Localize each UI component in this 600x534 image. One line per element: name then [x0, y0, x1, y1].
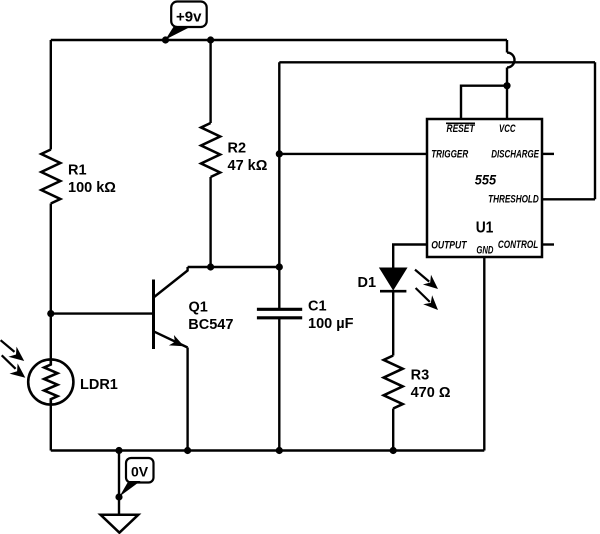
- LED D1 light arrow 2 shaft: [416, 288, 430, 302]
- svg-text:LDR1: LDR1: [80, 377, 118, 393]
- LED D1 light arrow 1 shaft: [415, 270, 429, 282]
- svg-text:VCC: VCC: [499, 123, 516, 135]
- svg-text:R1: R1: [68, 163, 87, 179]
- wire TRIGGER pin lead: [279, 153, 427, 155]
- node R2 bottom junction: [207, 263, 214, 270]
- svg-text:CONTROL: CONTROL: [498, 239, 539, 251]
- transistor Q1 emitter diagonal: [154, 331, 188, 347]
- LDR1 light arrow 2 shaft: [2, 355, 16, 369]
- LED D1 cathode bar: [380, 290, 406, 293]
- LDR1 zigzag: [44, 359, 57, 404]
- node TRIGGER junction: [276, 150, 283, 157]
- wire VCC drop upper: [506, 40, 508, 53]
- wire trigger net vertical: [278, 62, 280, 309]
- wire base lead: [51, 312, 154, 314]
- svg-text:R3: R3: [411, 368, 430, 384]
- supply flag +9v: [166, 2, 207, 40]
- transistor Q1 emitter arrowhead: [169, 335, 184, 346]
- node emitter junction: [184, 447, 191, 454]
- node C1 bottom junction: [276, 447, 283, 454]
- resistor R2: [201, 123, 220, 177]
- svg-text:RESET: RESET: [447, 123, 476, 135]
- svg-text:47 kΩ: 47 kΩ: [228, 158, 268, 174]
- LDR1 light arrow 1 head: [8, 347, 24, 361]
- svg-text:R2: R2: [228, 141, 247, 157]
- node R2 top junction: [207, 36, 214, 43]
- svg-text:U1: U1: [476, 220, 494, 237]
- node 0V label tap: [115, 493, 122, 500]
- wire threshold net right rail: [594, 62, 596, 199]
- node +9V tap junction: [162, 36, 169, 43]
- node collector/C1 junction: [276, 263, 283, 270]
- capacitor C1 top plate: [257, 308, 302, 311]
- svg-text:Q1: Q1: [189, 300, 208, 316]
- svg-text:DISCHARGE: DISCHARGE: [491, 149, 539, 161]
- wire 0V tap drop: [118, 451, 120, 515]
- wire bottom 0V rail: [51, 449, 485, 451]
- transistor Q1 base bar: [152, 280, 155, 350]
- svg-text:470 Ω: 470 Ω: [411, 385, 451, 401]
- wire VCC pin lead: [506, 86, 508, 119]
- wire LED to R3: [392, 291, 394, 355]
- node base junction: [47, 310, 54, 317]
- svg-text:555: 555: [475, 173, 497, 188]
- supply flag 0V: [120, 458, 154, 497]
- wire RESET branch: [461, 86, 507, 119]
- LDR1 light arrow 1 shaft: [1, 340, 15, 352]
- wire OUTPUT pin lead: [393, 245, 427, 269]
- svg-text:100 µF: 100 µF: [308, 316, 354, 332]
- op-amp U1 555 body box: [427, 119, 542, 257]
- resistor R1: [41, 150, 60, 204]
- wire threshold net horizontal: [279, 61, 595, 63]
- svg-text:TRIGGER: TRIGGER: [431, 149, 468, 161]
- LDR1 body circle: [28, 359, 73, 404]
- wire R3 bottom lead: [392, 409, 394, 451]
- wire emitter lead down: [186, 348, 188, 451]
- svg-text:GND: GND: [476, 245, 493, 257]
- wire hop over threshold net: [507, 53, 514, 68]
- wire left rail top (R1 top lead): [50, 40, 52, 150]
- wire GND pin lead: [483, 257, 485, 451]
- wire +9V top rail: [51, 39, 507, 41]
- svg-text:0V: 0V: [131, 464, 149, 480]
- node R3 bottom junction: [390, 447, 397, 454]
- LED D1 light arrow 2 head: [423, 295, 438, 310]
- resistor R3: [384, 356, 403, 409]
- pin label RESET: [446, 123, 475, 135]
- svg-text:D1: D1: [358, 275, 377, 291]
- wire R2 top lead: [209, 40, 211, 123]
- wire C1 bottom lead: [278, 318, 280, 451]
- node 0V rail tap: [115, 447, 122, 454]
- wire LDR bottom lead: [50, 405, 52, 451]
- node VCC/RESET junction: [503, 82, 510, 89]
- svg-text:THRESHOLD: THRESHOLD: [488, 194, 539, 206]
- LDR1 light arrow 2 head: [10, 363, 26, 377]
- svg-text:100 kΩ: 100 kΩ: [68, 180, 116, 196]
- wire collector link: [188, 266, 280, 268]
- capacitor C1 bottom plate: [257, 316, 302, 319]
- wire R1 bottom lead to LDR: [50, 204, 52, 360]
- LED D1 light arrow 1 head: [423, 275, 438, 289]
- transistor Q1 collector diagonal: [154, 267, 188, 298]
- wire R2 bottom lead: [209, 177, 211, 267]
- wire CONTROL stub: [542, 243, 554, 245]
- LED D1 triangle: [380, 268, 406, 289]
- svg-text:OUTPUT: OUTPUT: [431, 240, 467, 252]
- wire VCC drop lower: [506, 68, 508, 86]
- ground symbol: [101, 515, 139, 533]
- svg-text:BC547: BC547: [188, 317, 233, 333]
- wire DISCHARGE stub: [542, 153, 554, 155]
- svg-text:+9v: +9v: [176, 9, 202, 26]
- svg-text:C1: C1: [308, 299, 327, 315]
- wire THRESHOLD pin lead: [542, 198, 595, 200]
